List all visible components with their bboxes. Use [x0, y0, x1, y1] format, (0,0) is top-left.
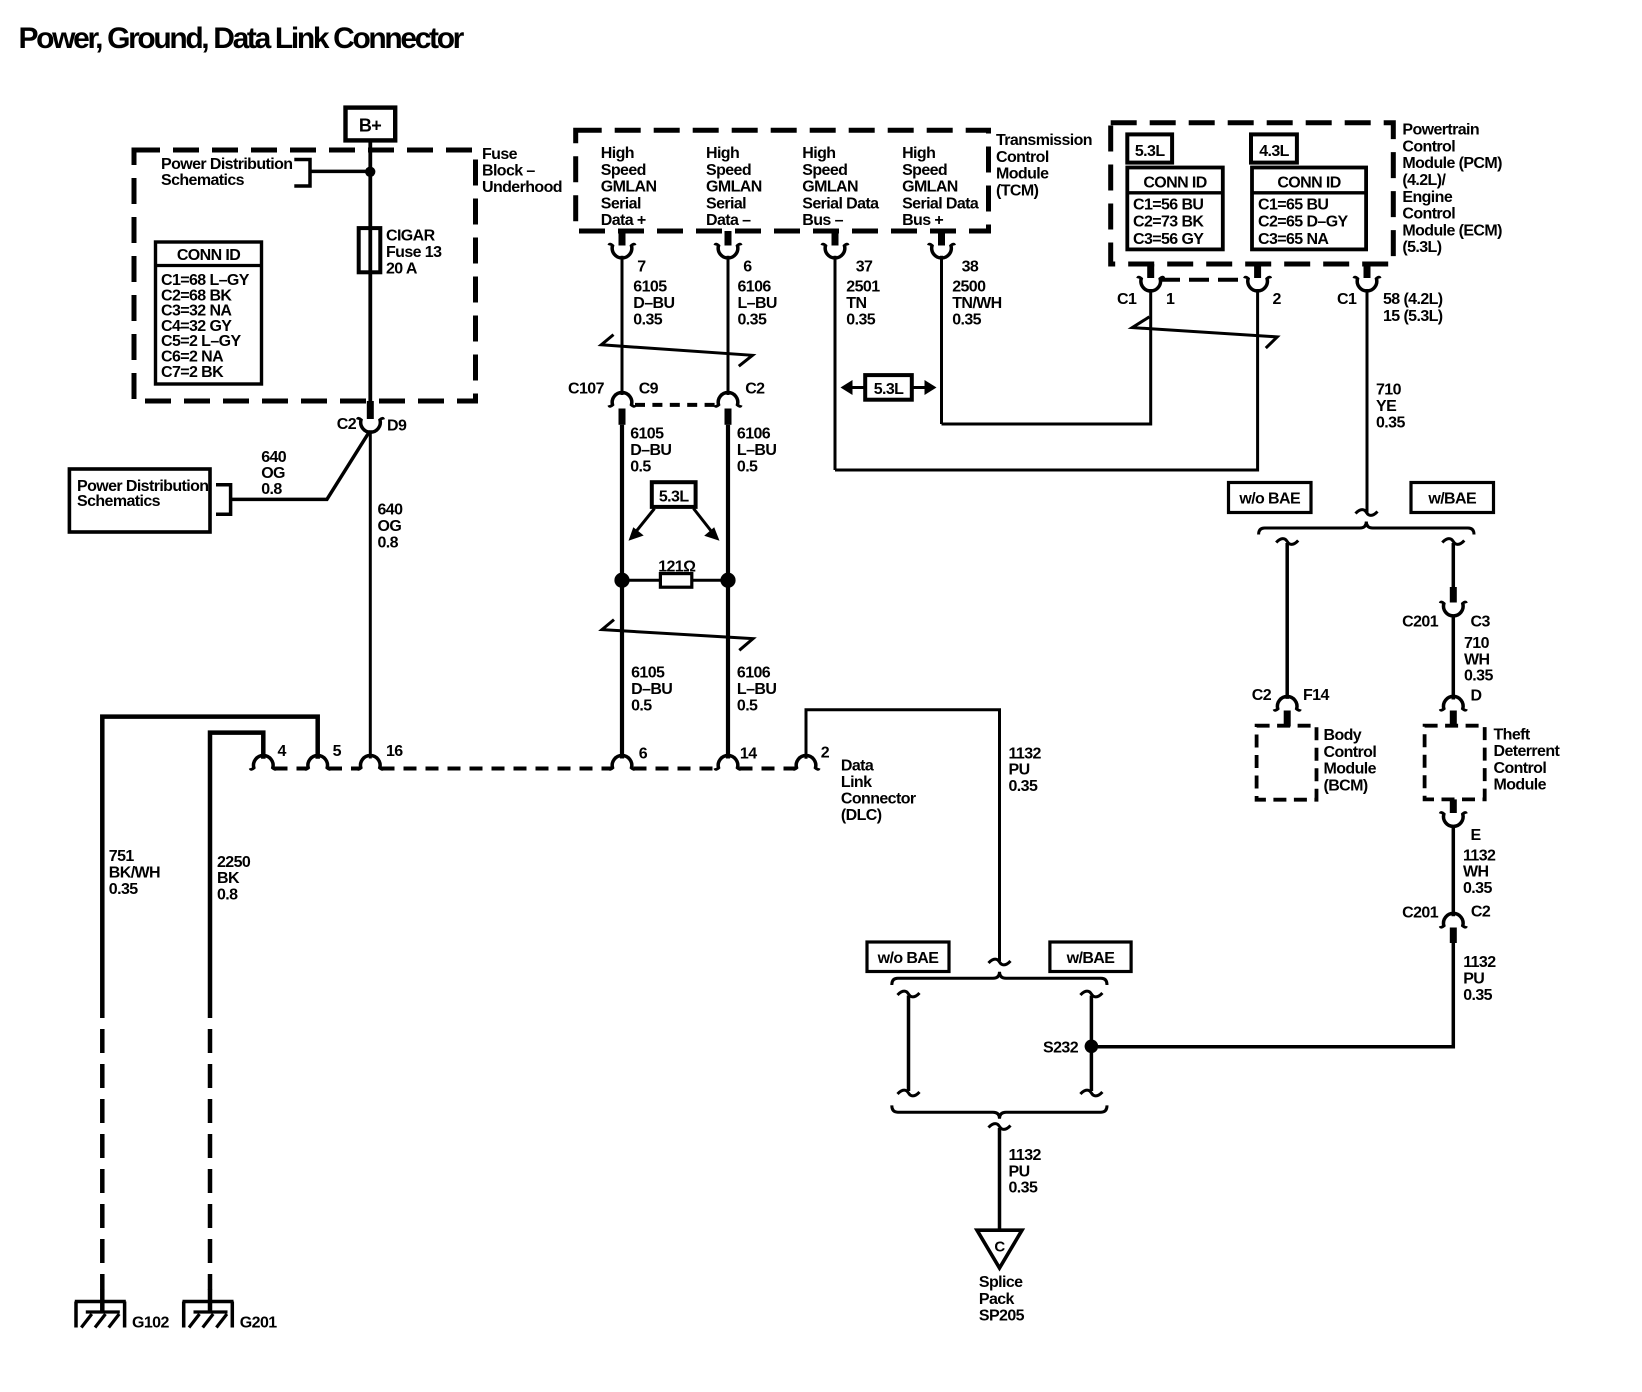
TCM pin 6 connector cup: [715, 244, 741, 258]
svg-text:0.35: 0.35: [1009, 778, 1038, 795]
wire 6105 D-BU 0.35 (pin7 to C107): [621, 256, 624, 395]
module box Theft Deterrent Control Module: [1425, 726, 1485, 800]
PCM pin 1 connector cup: [1138, 277, 1164, 291]
svg-text:7: 7: [637, 259, 646, 276]
svg-text:w/o BAE: w/o BAE: [1238, 491, 1301, 508]
svg-text:C3=56 GY: C3=56 GY: [1133, 231, 1204, 248]
splice S232 dot: [1085, 1040, 1099, 1054]
svg-text:Data: Data: [841, 757, 874, 774]
wire PCM pin1 to TCM 38: [942, 289, 1151, 424]
svg-text:C2: C2: [1252, 687, 1272, 704]
svg-text:w/o BAE: w/o BAE: [877, 950, 940, 967]
svg-text:Schematics: Schematics: [161, 172, 245, 189]
svg-text:PU: PU: [1009, 762, 1030, 779]
wire break squiggle (w/o BAE branch bottom): [898, 1090, 920, 1096]
svg-text:58 (4.2L): 58 (4.2L): [1383, 291, 1443, 308]
svg-text:F14: F14: [1303, 687, 1329, 704]
arrow right (5.3L): [912, 386, 926, 389]
callout box w/BAE (DLC): [1050, 942, 1131, 972]
svg-text:2501: 2501: [846, 279, 880, 296]
svg-text:0.8: 0.8: [217, 887, 238, 904]
wire w/BAE branch: [1090, 996, 1094, 1092]
svg-text:PU: PU: [1463, 971, 1484, 988]
wire B+ feed down through fuse: [368, 143, 372, 418]
module box Transmission Control Module TCM: [576, 130, 989, 231]
svg-text:OG: OG: [261, 465, 285, 482]
wire 1132 PU 0.35 (C201 to S232): [1098, 942, 1453, 1047]
svg-text:0.35: 0.35: [846, 312, 875, 329]
power symbol B+ box: [346, 108, 396, 141]
svg-text:0.35: 0.35: [633, 312, 662, 329]
wire break squiggle (710 YE end): [1356, 510, 1378, 516]
arrow down-right (5.3L): [694, 509, 714, 535]
wire break squiggle (w/BAE branch top): [1080, 991, 1102, 997]
svg-text:D–BU: D–BU: [630, 442, 671, 459]
module box Powertrain Control Module PCM: [1111, 123, 1394, 264]
svg-text:4: 4: [278, 743, 287, 760]
svg-text:S232: S232: [1043, 1039, 1079, 1056]
wire 2501 TN 0.35 (pin37 down): [834, 256, 837, 470]
svg-text:D9: D9: [387, 418, 407, 435]
svg-text:(4.2L)/: (4.2L)/: [1402, 172, 1446, 189]
svg-text:SP205: SP205: [979, 1308, 1025, 1325]
svg-text:Link: Link: [841, 774, 872, 791]
svg-text:2: 2: [821, 744, 830, 761]
wire pin6 DLC drop: [620, 580, 624, 758]
resistor 121 ohm body: [660, 574, 691, 588]
svg-text:C3=65 NA: C3=65 NA: [1258, 231, 1329, 248]
connector DLC pin 14 dome: [715, 755, 741, 769]
svg-text:C1=56 BU: C1=56 BU: [1133, 196, 1203, 213]
svg-text:Serial: Serial: [706, 195, 746, 212]
svg-text:1: 1: [1166, 291, 1175, 308]
svg-text:Body: Body: [1324, 727, 1362, 744]
wire PCM pin2 to TCM 37: [835, 289, 1258, 470]
svg-text:4.3L: 4.3L: [1259, 143, 1289, 160]
svg-text:640: 640: [261, 449, 287, 466]
wire branch to power distribution schematics: [231, 432, 370, 500]
DLC bus dashed line seg A: [275, 767, 308, 771]
svg-text:0.5: 0.5: [737, 459, 758, 476]
svg-text:C1: C1: [1337, 291, 1357, 308]
svg-text:C2=73 BK: C2=73 BK: [1133, 214, 1204, 231]
svg-text:16: 16: [386, 743, 403, 760]
svg-text:0.5: 0.5: [737, 697, 758, 714]
svg-text:Control: Control: [1324, 744, 1377, 761]
brace merge bottom (DLC): [892, 1105, 1107, 1118]
svg-text:0.5: 0.5: [631, 697, 652, 714]
svg-text:14: 14: [740, 745, 757, 762]
ground G102: [75, 1300, 126, 1304]
connector D dome (theft): [1441, 696, 1467, 710]
svg-text:0.35: 0.35: [1376, 414, 1405, 431]
PCM pin 2 connector cup: [1245, 277, 1271, 291]
connector C201 C3 stub: [1450, 587, 1457, 603]
svg-text:Bus –: Bus –: [802, 212, 843, 229]
callout 4.3L box (PCM): [1251, 134, 1297, 162]
callout box w/BAE (right): [1411, 483, 1494, 513]
svg-text:Module: Module: [1324, 761, 1377, 778]
connector C201 C2 stub: [1450, 928, 1457, 944]
svg-text:Serial Data: Serial Data: [802, 195, 879, 212]
PCM pin C1-58 connector cup: [1354, 277, 1380, 291]
svg-text:Control: Control: [1494, 760, 1547, 777]
svg-text:Fuse: Fuse: [482, 146, 518, 163]
svg-text:0.35: 0.35: [1463, 987, 1492, 1004]
connector C107 C2 stub: [725, 409, 732, 425]
TCM pin 37 stub: [832, 231, 839, 246]
twisted pair crossing (GMLAN upper): [601, 335, 752, 367]
wire between resistor junctions: [622, 579, 728, 582]
svg-text:6105: 6105: [633, 279, 667, 296]
svg-text:5.3L: 5.3L: [1135, 143, 1165, 160]
wire break squiggle (w/o BAE branch top): [898, 991, 920, 997]
box Power Distribution Schematics (left): [69, 469, 210, 532]
brace split top (DLC): [892, 972, 1107, 985]
svg-text:GMLAN: GMLAN: [706, 179, 762, 196]
svg-text:BK/WH: BK/WH: [109, 865, 160, 882]
svg-text:0.35: 0.35: [1009, 1180, 1038, 1197]
connector C201 C3 cup: [1441, 602, 1467, 616]
wire 6106 L-BU 0.35 (pin6 to C107): [727, 256, 730, 395]
svg-text:YE: YE: [1376, 398, 1397, 415]
svg-text:G201: G201: [240, 1315, 277, 1332]
callout 5.3L box (PCM): [1127, 134, 1172, 162]
svg-text:20 A: 20 A: [386, 260, 418, 277]
wire break squiggle (SP205 wire top): [989, 1124, 1011, 1130]
callout 5.3L box (terminating resistor): [652, 482, 696, 507]
svg-text:CIGAR: CIGAR: [386, 228, 436, 245]
wire 6105 D-BU 0.5 (C107 to splice): [620, 425, 624, 580]
svg-text:5: 5: [333, 743, 342, 760]
svg-text:2: 2: [1273, 291, 1282, 308]
svg-text:2250: 2250: [217, 854, 251, 871]
svg-text:2500: 2500: [952, 279, 986, 296]
svg-text:Bus +: Bus +: [902, 212, 943, 229]
svg-text:High: High: [802, 145, 835, 162]
svg-text:Control: Control: [1402, 138, 1455, 155]
svg-text:0.35: 0.35: [1464, 668, 1493, 685]
wire break squiggle (1132 PU end): [989, 959, 1011, 965]
wire break squiggle (w/BAE branch bottom): [1080, 1090, 1102, 1096]
svg-text:0.8: 0.8: [378, 534, 399, 551]
wire 710 WH 0.35: [1452, 615, 1456, 700]
svg-text:Control: Control: [1402, 206, 1455, 223]
callout box w/o BAE (right): [1229, 483, 1312, 513]
svg-text:(DLC): (DLC): [841, 807, 882, 824]
svg-text:Data –: Data –: [706, 212, 751, 229]
svg-text:Speed: Speed: [706, 162, 751, 179]
svg-text:B+: B+: [359, 116, 381, 136]
table CONN ID (PCM 5.3L): [1127, 168, 1223, 250]
svg-text:Serial: Serial: [601, 195, 641, 212]
connector D stub into theft module: [1450, 711, 1457, 727]
DLC bus dashed line seg E: [740, 767, 796, 771]
wire DLC pin5 to ground G102: [102, 717, 317, 1018]
PCM connector C1 dashed link: [1160, 278, 1248, 282]
twisted pair crossing (GMLAN lower): [602, 620, 753, 651]
svg-text:1132: 1132: [1463, 954, 1496, 971]
svg-text:710: 710: [1464, 635, 1490, 652]
svg-text:TN/WH: TN/WH: [952, 295, 1001, 312]
wire 1132 PU 0.35 to splice pack: [998, 1128, 1002, 1231]
DLC bus dashed line seg B: [329, 767, 359, 771]
svg-text:High: High: [902, 145, 935, 162]
arrow left (5.3L): [850, 386, 865, 389]
svg-text:G102: G102: [132, 1315, 169, 1332]
DLC bus dashed line seg D: [634, 767, 718, 771]
connector C2 D9 stub: [367, 401, 374, 419]
callout 5.3L double arrow box: [865, 375, 912, 400]
svg-text:C7=2 BK: C7=2 BK: [161, 364, 224, 381]
wire pin14 DLC drop: [726, 580, 730, 758]
svg-text:C2: C2: [1471, 904, 1491, 921]
svg-text:Module (ECM): Module (ECM): [1402, 222, 1502, 239]
wire break squiggle (theft branch top): [1442, 539, 1464, 545]
svg-text:Transmission: Transmission: [996, 132, 1092, 149]
svg-text:Connector: Connector: [841, 791, 916, 808]
connector C2 D9 cup: [358, 419, 384, 433]
connector C107 C9 dome: [609, 392, 635, 406]
connector DLC pin 6 dome: [609, 755, 635, 769]
fuse CIGAR Fuse 13 20A: [359, 228, 381, 272]
wire tap from B+ feed to Power Distribution Schematics: [310, 170, 370, 174]
svg-text:15 (5.3L): 15 (5.3L): [1383, 308, 1443, 325]
splice pack triangle C: [977, 1230, 1022, 1268]
svg-text:D–BU: D–BU: [633, 295, 674, 312]
junction dot left (resistor): [614, 573, 629, 588]
svg-text:GMLAN: GMLAN: [601, 179, 657, 196]
svg-text:Fuse 13: Fuse 13: [386, 244, 442, 261]
svg-text:Module: Module: [1494, 777, 1547, 794]
svg-text:Module (PCM): Module (PCM): [1402, 155, 1502, 172]
svg-text:1132: 1132: [1009, 745, 1042, 762]
svg-text:6106: 6106: [737, 665, 771, 682]
svg-text:Speed: Speed: [902, 162, 947, 179]
wire dashed to G102: [100, 1029, 105, 1290]
svg-text:C3: C3: [1471, 614, 1491, 631]
svg-text:(TCM): (TCM): [996, 182, 1039, 199]
svg-text:Speed: Speed: [802, 162, 847, 179]
wire 2500 TN/WH 0.35 (pin38 down): [940, 256, 943, 424]
svg-text:High: High: [601, 145, 634, 162]
TCM pin 6 stub: [725, 231, 732, 246]
svg-text:0.35: 0.35: [109, 881, 138, 898]
wire DLC pin2 to BAE split: [806, 710, 1000, 961]
table CONN ID (PCM 4.3L): [1252, 168, 1366, 250]
svg-text:(5.3L): (5.3L): [1402, 239, 1441, 256]
connector C107 C2 dome: [715, 392, 741, 406]
svg-text:0.5: 0.5: [630, 459, 651, 476]
svg-text:Deterrent: Deterrent: [1494, 743, 1561, 760]
svg-text:CONN ID: CONN ID: [1143, 174, 1206, 191]
bracket to Power Distribution Schematics (top): [294, 160, 310, 187]
svg-text:C9: C9: [639, 380, 659, 397]
junction at B+ tap: [365, 167, 375, 177]
TCM pin 7 stub: [619, 231, 626, 246]
theft module bottom stub: [1450, 799, 1457, 813]
svg-text:CONN ID: CONN ID: [177, 247, 240, 264]
svg-text:w/BAE: w/BAE: [1066, 950, 1116, 967]
svg-text:TN: TN: [846, 295, 866, 312]
table CONN ID (fuse block): [156, 242, 262, 384]
svg-text:6: 6: [639, 745, 648, 762]
svg-text:5.3L: 5.3L: [874, 381, 904, 398]
svg-text:Pack: Pack: [979, 1291, 1015, 1308]
svg-text:BK: BK: [217, 870, 240, 887]
connector DLC pin 4 dome: [251, 755, 277, 769]
svg-text:CONN ID: CONN ID: [1277, 174, 1340, 191]
svg-text:Power, Ground, Data Link Conne: Power, Ground, Data Link Connector: [19, 22, 465, 55]
svg-text:Underhood: Underhood: [482, 179, 562, 196]
svg-text:0.35: 0.35: [1463, 880, 1492, 897]
twisted pair crossing (serial data bus): [1132, 317, 1277, 348]
svg-text:Engine: Engine: [1402, 189, 1452, 206]
svg-text:(BCM): (BCM): [1324, 777, 1368, 794]
svg-text:Data +: Data +: [601, 212, 646, 229]
wire 710 YE 0.35 (PCM C1 down): [1366, 289, 1369, 514]
wire BCM branch down: [1285, 543, 1289, 699]
svg-text:640: 640: [378, 502, 404, 519]
svg-text:Splice: Splice: [979, 1274, 1023, 1291]
wire 6106 L-BU 0.5 (C107 to splice): [726, 425, 730, 580]
svg-text:Powertrain: Powertrain: [1402, 122, 1479, 139]
svg-text:WH: WH: [1464, 651, 1490, 668]
module box Body Control Module BCM: [1257, 726, 1317, 800]
svg-text:751: 751: [109, 848, 135, 865]
svg-text:GMLAN: GMLAN: [902, 179, 958, 196]
svg-text:w/BAE: w/BAE: [1427, 491, 1477, 508]
svg-text:1132: 1132: [1463, 847, 1496, 864]
wire 1132 WH 0.35 (theft to C201): [1452, 825, 1456, 916]
connector DLC pin 16 dome: [358, 755, 384, 769]
svg-text:C1=65 BU: C1=65 BU: [1258, 196, 1328, 213]
ground G201: [183, 1300, 234, 1304]
TCM pin 38 connector cup: [929, 244, 955, 258]
svg-text:L–BU: L–BU: [738, 295, 777, 312]
connector E cup (theft bottom): [1441, 813, 1467, 827]
svg-text:C2: C2: [745, 380, 765, 397]
svg-text:OG: OG: [378, 518, 402, 535]
svg-text:6105: 6105: [630, 426, 664, 443]
PCM pin 2 stub: [1254, 264, 1261, 278]
svg-text:L–BU: L–BU: [737, 442, 776, 459]
TCM pin 7 connector cup: [609, 244, 635, 258]
connector DLC pin 5 dome: [305, 755, 331, 769]
svg-text:0.8: 0.8: [261, 481, 282, 498]
DLC bus dashed line seg C: [382, 767, 612, 771]
svg-text:WH: WH: [1463, 864, 1489, 881]
svg-text:1132: 1132: [1009, 1147, 1042, 1164]
svg-text:6106: 6106: [738, 279, 772, 296]
wire dashed to G201: [208, 1029, 213, 1290]
wire theft branch down: [1452, 543, 1456, 588]
PCM pin C1-58 stub: [1364, 264, 1371, 278]
connector C107 dashed link: [635, 403, 715, 407]
svg-text:L–BU: L–BU: [737, 681, 776, 698]
module box Fuse Block - Underhood: [134, 150, 476, 401]
bracket to Power Distribution Schematics (left): [216, 485, 231, 515]
wire w/o BAE branch: [907, 996, 911, 1092]
wire DLC pin4 to ground G201: [210, 733, 263, 1018]
svg-text:GMLAN: GMLAN: [802, 179, 858, 196]
connector DLC pin 2 dome: [793, 755, 819, 769]
connector F14 dome (BCM): [1274, 696, 1300, 710]
junction dot right (resistor): [720, 573, 735, 588]
connector C107 C9 stub: [619, 409, 626, 425]
svg-text:Module: Module: [996, 166, 1049, 183]
PCM pin 1 stub: [1147, 264, 1154, 278]
svg-text:C2: C2: [337, 416, 357, 433]
TCM pin 37 connector cup: [822, 244, 848, 258]
callout box w/o BAE (DLC): [867, 942, 949, 972]
svg-text:6105: 6105: [631, 665, 665, 682]
svg-text:PU: PU: [1009, 1163, 1030, 1180]
connector F14 stub into BCM: [1284, 711, 1291, 727]
wire break squiggle (BCM branch top): [1276, 539, 1298, 545]
svg-text:Speed: Speed: [601, 162, 646, 179]
svg-text:C1: C1: [1117, 291, 1137, 308]
connector C201 C2 dome: [1441, 913, 1467, 927]
svg-text:E: E: [1471, 827, 1482, 844]
svg-text:Serial Data: Serial Data: [902, 195, 979, 212]
svg-text:Block –: Block –: [482, 163, 535, 180]
svg-text:D: D: [1471, 688, 1482, 705]
svg-text:C201: C201: [1402, 614, 1439, 631]
brace split (right): [1259, 522, 1474, 535]
svg-text:C2=65 D–GY: C2=65 D–GY: [1258, 214, 1349, 231]
svg-text:6: 6: [743, 259, 752, 276]
svg-text:D–BU: D–BU: [631, 681, 672, 698]
svg-text:37: 37: [856, 259, 873, 276]
TCM pin 38 stub: [938, 231, 945, 246]
svg-text:Control: Control: [996, 149, 1049, 166]
svg-text:C201: C201: [1402, 905, 1439, 922]
svg-text:0.35: 0.35: [738, 312, 767, 329]
svg-text:C107: C107: [568, 380, 605, 397]
svg-text:Theft: Theft: [1494, 726, 1531, 743]
svg-text:38: 38: [962, 259, 979, 276]
svg-text:Power Distribution: Power Distribution: [161, 156, 292, 173]
svg-text:0.35: 0.35: [952, 312, 981, 329]
svg-text:5.3L: 5.3L: [659, 488, 689, 505]
svg-text:6106: 6106: [737, 426, 771, 443]
svg-text:Schematics: Schematics: [77, 493, 161, 510]
wire 640 OG 0.8 down to DLC pin 16: [369, 430, 372, 758]
svg-text:High: High: [706, 145, 739, 162]
svg-text:C: C: [994, 1239, 1005, 1256]
arrow down-left (5.3L): [634, 509, 655, 535]
svg-text:710: 710: [1376, 382, 1402, 399]
